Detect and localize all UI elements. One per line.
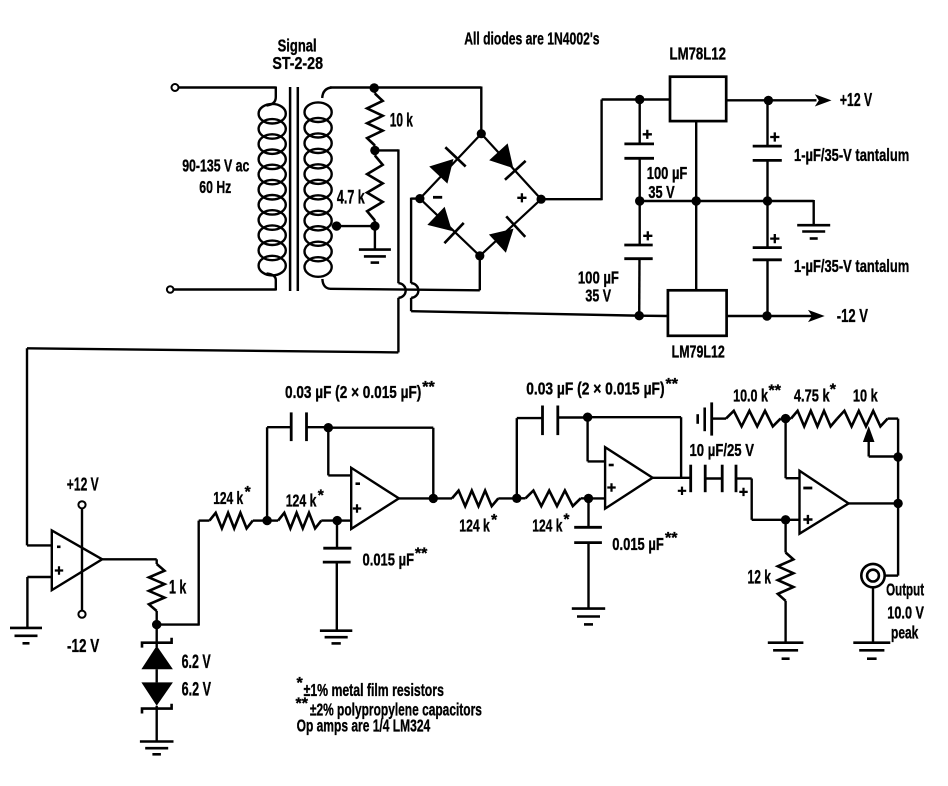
- svg-text:10 µF/25 V: 10 µF/25 V: [690, 440, 755, 460]
- label C5 '0.03 uF (2 x 0.015 uF)': [285, 382, 421, 402]
- wire signal tap to U1 inverting input: [27, 149, 406, 545]
- wire LM78L12 output to +12V: [726, 99, 816, 101]
- node junction R1/R2 tap: [370, 146, 379, 155]
- svg-text:*: *: [245, 484, 252, 501]
- svg-text:0.015 µF: 0.015 µF: [612, 534, 664, 554]
- label C5 stars: [422, 379, 435, 396]
- capacitor C9 10 uF/25 V: [691, 465, 723, 493]
- label U3 plus: [607, 483, 615, 491]
- label R1 '10 k': [390, 111, 413, 132]
- wire secondary top to bridge AC top: [330, 87, 481, 134]
- svg-text:Op amps are 1/4 LM324: Op amps are 1/4 LM324: [297, 716, 431, 736]
- svg-text:**: **: [769, 383, 782, 400]
- regulator U5 LM78L12 box: [670, 77, 726, 121]
- svg-text:0.015 µF: 0.015 µF: [363, 550, 415, 570]
- label C2 plus: [643, 231, 652, 240]
- node junction +rail / C1: [635, 95, 644, 104]
- label R9 '4.75 k': [794, 386, 830, 406]
- resistor R5 124 k: [267, 513, 337, 529]
- svg-text:10 k: 10 k: [390, 111, 413, 132]
- label C8 '0.015 uF': [612, 534, 664, 554]
- node bridge minus corner: [415, 194, 424, 203]
- label C7 stars: [666, 376, 679, 393]
- label R2 '4.7 k': [337, 188, 365, 209]
- label 'Output': [886, 580, 924, 600]
- svg-text:-12 V: -12 V: [67, 635, 100, 656]
- svg-text:124 k: 124 k: [459, 516, 490, 536]
- node -12 V terminal: [78, 611, 85, 618]
- regulator U6 LM79L12 box: [668, 290, 727, 336]
- resistor R1 10 k: [367, 88, 383, 150]
- wire R8/R9 node to U4 -IN: [786, 419, 800, 479]
- label '90-135 V ac': [182, 156, 249, 176]
- node A junction R4/R5/C5: [262, 516, 271, 525]
- op-amp U4: [800, 471, 849, 534]
- svg-text:10.0 V: 10.0 V: [887, 603, 924, 623]
- label C6 stars: [415, 546, 428, 563]
- transformer T1 core: [290, 87, 298, 291]
- wire R5 to U2 +IN: [337, 519, 351, 521]
- node junction mid-rail / C3 C4: [763, 196, 772, 205]
- label R6 '124 k': [459, 516, 490, 536]
- node junction secondary-top / R1: [370, 83, 379, 92]
- wire secondary center tap: [332, 225, 375, 227]
- svg-text:*: *: [830, 382, 837, 399]
- diode D5 zener 6.2 V: [141, 625, 173, 670]
- ground R11: [768, 643, 804, 659]
- node junction wiper / R10 end: [893, 452, 902, 461]
- label U4 plus: [803, 515, 812, 524]
- svg-text:6.2 V: 6.2 V: [182, 680, 212, 701]
- wire U1 +IN to ground: [27, 577, 51, 628]
- svg-text:10 k: 10 k: [853, 386, 878, 406]
- node junction R5 / U2 +IN / C6: [333, 516, 342, 525]
- label R6 star: [491, 512, 498, 529]
- label C3 plus: [770, 132, 779, 141]
- capacitor C11 10 uF: [698, 402, 726, 435]
- wire R2 bottom to ground: [374, 226, 376, 250]
- node junction C5 / U2 -IN / feedback: [324, 423, 333, 432]
- capacitor C4 1 uF tantalum: [753, 201, 782, 316]
- wire LM78L12 ground pin: [695, 121, 697, 201]
- wire +IN node to U4: [786, 519, 800, 521]
- node primary bottom terminal: [167, 286, 174, 293]
- node junction U4 out / feedback: [893, 499, 902, 508]
- capacitor C2 100 uF 35 V: [624, 201, 652, 316]
- svg-text:100 µF: 100 µF: [647, 163, 688, 183]
- svg-text:*: *: [491, 512, 498, 529]
- label R9 star: [830, 382, 837, 399]
- ground center-tap: [359, 250, 391, 263]
- svg-text:**: **: [665, 530, 678, 547]
- arrow -12 V output: [808, 310, 825, 322]
- label C1 '100 uF': [647, 163, 688, 183]
- node junction R7 / U3 +IN / C8: [584, 494, 593, 503]
- label '10.0 V': [887, 603, 924, 623]
- svg-text:60 Hz: 60 Hz: [199, 177, 231, 197]
- node B junction R6/R7/C7: [512, 494, 521, 503]
- diode D4 (bridge bottom-right): [488, 216, 525, 254]
- label R5 '124 k': [286, 491, 317, 511]
- label U2 minus: [356, 482, 361, 485]
- wire U1 output: [102, 559, 157, 564]
- svg-text:**: **: [296, 696, 309, 713]
- label U3 minus: [609, 464, 614, 467]
- wire C10 to U4 +IN node: [752, 479, 786, 520]
- node +12 V terminal: [78, 501, 85, 508]
- wire connector shield to ground: [872, 587, 874, 642]
- svg-text:1-µF/35-V tantalum: 1-µF/35-V tantalum: [794, 145, 909, 165]
- diode D3 (bridge bottom-left): [426, 206, 463, 244]
- svg-text:124 k: 124 k: [532, 516, 562, 536]
- capacitor C10 10 uF/25 V: [722, 465, 752, 493]
- label U1 minus: [57, 545, 61, 548]
- node center tap on winding: [332, 221, 341, 230]
- output connector J1: [861, 564, 884, 587]
- svg-text:100 µF: 100 µF: [578, 268, 619, 288]
- diode D1 (bridge top-left): [428, 147, 466, 184]
- potentiometer R10 10 k: [837, 411, 898, 504]
- svg-text:1 k: 1 k: [169, 578, 187, 599]
- label D5 '6.2 V': [182, 652, 211, 673]
- svg-text:*: *: [318, 488, 325, 505]
- wire zener node to R4: [157, 521, 210, 626]
- label D6 '6.2 V': [182, 680, 212, 701]
- resistor R6 124 k: [433, 491, 517, 507]
- label C2 '35 V': [585, 286, 611, 306]
- svg-text:35 V: 35 V: [585, 286, 611, 306]
- label U2 plus: [353, 504, 361, 512]
- label C9/C10 '10 uF/25 V': [690, 440, 755, 460]
- capacitor C1 100 uF 35 V: [624, 100, 654, 202]
- wire secondary bottom to bridge AC bottom: [330, 256, 480, 290]
- label R11 '12 k': [748, 568, 772, 589]
- capacitor C5 0.03 uF: [291, 412, 328, 441]
- ground output connector: [853, 643, 890, 659]
- resistor R8 10.0 k: [726, 411, 786, 427]
- wire node A to C5: [267, 427, 291, 521]
- node junction C7 / U3 -IN / feedback: [583, 413, 592, 422]
- svg-text:*: *: [297, 675, 304, 692]
- resistor R4 124 k: [210, 513, 268, 529]
- op-amp U2: [351, 468, 399, 529]
- resistor R2 4.7 k: [367, 150, 383, 226]
- resistor R9 4.75 k: [786, 411, 838, 427]
- ground C8: [572, 609, 605, 625]
- label U1 plus: [55, 566, 63, 574]
- node bridge AC top corner: [477, 129, 486, 138]
- node junction R8 / R9 / U4 -IN: [781, 414, 790, 423]
- label C3 '1-uF/35-V tantalum': [794, 145, 909, 165]
- capacitor C7 0.03 uF: [543, 406, 588, 436]
- wire output to connector: [885, 503, 898, 575]
- label R7 star: [564, 512, 571, 529]
- node junction -12V / C4: [762, 311, 771, 320]
- note star 1: [297, 675, 304, 692]
- label R5 star: [318, 488, 325, 505]
- wire R7 to U3 +IN: [589, 497, 606, 499]
- label bridge minus: [433, 196, 442, 199]
- label bridge plus: [517, 193, 526, 202]
- node primary top terminal: [172, 84, 179, 91]
- wire C7 node to U3 output: [588, 417, 682, 478]
- node junction U4 +IN / R11: [781, 515, 790, 524]
- resistor R7 124 k: [517, 491, 589, 507]
- svg-text:*: *: [564, 512, 571, 529]
- svg-text:35 V: 35 V: [648, 182, 675, 202]
- op-amp U3: [605, 447, 653, 508]
- label '60 Hz': [199, 177, 231, 197]
- label R8 stars: [769, 383, 782, 400]
- svg-text:6.2 V: 6.2 V: [182, 652, 211, 673]
- svg-text:+12 V: +12 V: [840, 89, 873, 110]
- label C8 stars: [665, 530, 678, 547]
- wire U2 output: [399, 497, 433, 499]
- label C2 '100 uF': [578, 268, 619, 288]
- svg-text:10.0 k: 10.0 k: [733, 386, 768, 406]
- svg-text:0.03 µF (2 × 0.015 µF): 0.03 µF (2 × 0.015 µF): [285, 382, 421, 402]
- wire primary bottom lead: [174, 288, 276, 290]
- svg-text:peak: peak: [891, 623, 918, 643]
- label 'peak': [891, 623, 918, 643]
- label C6 '0.015 uF': [363, 550, 415, 570]
- svg-text:124 k: 124 k: [213, 488, 243, 508]
- label C7 '0.03 uF (2 x 0.015 uF)': [526, 379, 664, 399]
- capacitor C8 0.015 uF: [574, 498, 602, 608]
- label 'LM78L12': [670, 44, 727, 64]
- wire C5 node to U2 output: [328, 428, 433, 499]
- svg-text:124 k: 124 k: [286, 491, 317, 511]
- resistor R3 1 k: [149, 564, 165, 625]
- svg-text:4.75 k: 4.75 k: [794, 386, 830, 406]
- svg-text:-12 V: -12 V: [837, 305, 869, 326]
- label C4 plus: [770, 234, 779, 243]
- svg-text:+12 V: +12 V: [67, 474, 99, 495]
- resistor R11 12 k: [778, 520, 794, 643]
- svg-text:**: **: [666, 376, 679, 393]
- label C9 plus: [678, 487, 686, 495]
- svg-text:Output: Output: [886, 580, 924, 600]
- label R4 '124 k': [213, 488, 243, 508]
- wire C5 node to U2 -IN: [328, 428, 351, 476]
- wire primary top lead: [179, 86, 276, 88]
- ground zener string: [140, 742, 174, 755]
- label U1 '-12 V': [67, 635, 100, 656]
- label U1 '+12 V': [67, 474, 99, 495]
- label R3 '1 k': [169, 578, 187, 599]
- wire U1 V+ pin: [81, 508, 83, 610]
- node junction R3 / zeners / R4: [152, 620, 161, 629]
- label R8 '10.0 k': [733, 386, 768, 406]
- svg-text:LM78L12: LM78L12: [670, 44, 727, 64]
- note '±2% polypropylene capacitors': [310, 700, 482, 720]
- svg-text:90-135 V ac: 90-135 V ac: [182, 156, 249, 176]
- node junction R2 bottom / center tap: [370, 221, 379, 230]
- node bridge plus corner: [537, 195, 546, 204]
- label '-12 V': [837, 305, 869, 326]
- label '+12 V': [840, 89, 873, 110]
- diode bridge frame: [420, 134, 541, 256]
- note stars 2: [296, 696, 309, 713]
- wire node B to C7: [517, 418, 543, 499]
- node junction mid-rail / regulator ground: [692, 196, 701, 205]
- ground supply common: [797, 225, 830, 238]
- svg-text:4.7 k: 4.7 k: [337, 188, 365, 209]
- transformer T1 primary winding (Signal ST-2-28): [259, 87, 286, 291]
- label C4 '1-uF/35-V tantalum': [794, 256, 909, 276]
- svg-text:1-µF/35-V tantalum: 1-µF/35-V tantalum: [794, 256, 909, 276]
- svg-text:**: **: [415, 546, 428, 563]
- svg-text:±1% metal film resistors: ±1% metal film resistors: [304, 680, 444, 700]
- diode D2 (bridge top-right): [488, 142, 526, 179]
- label T1 'ST-2-28': [272, 53, 323, 73]
- wire LM79L12 output to -12V: [727, 315, 812, 317]
- svg-text:ST-2-28: ST-2-28: [272, 53, 323, 73]
- wire LM79L12 ground pin: [695, 201, 697, 290]
- wire bridge plus to +rail: [541, 100, 670, 201]
- op-amp U1: [52, 531, 102, 591]
- svg-text:0.03 µF (2 × 0.015 µF): 0.03 µF (2 × 0.015 µF): [526, 379, 664, 399]
- ground U1 +IN: [10, 628, 42, 643]
- svg-text:**: **: [422, 379, 435, 396]
- svg-text:LM79L12: LM79L12: [672, 342, 725, 362]
- label R7 '124 k': [532, 516, 562, 536]
- diode D6 zener 6.2 V: [141, 682, 173, 741]
- wire mid ground rail: [640, 200, 814, 202]
- label U4 minus: [803, 487, 812, 490]
- label R4 star: [245, 484, 252, 501]
- wire U3 output: [653, 477, 691, 479]
- node junction U2 out / R6: [429, 494, 438, 503]
- label 'LM79L12': [672, 342, 725, 362]
- label C1 plus: [643, 130, 652, 139]
- transformer T1 secondary winding: [305, 88, 332, 289]
- capacitor C3 1 uF tantalum: [753, 100, 782, 201]
- node junction +12V / C3: [764, 96, 773, 105]
- arrow +12 V output: [815, 94, 832, 106]
- note 'Op amps are 1/4 LM324': [297, 716, 431, 736]
- note 'All diodes are 1N4002's': [464, 29, 599, 49]
- label C1 '35 V': [648, 182, 675, 202]
- capacitor C6 0.015 uF: [323, 521, 352, 631]
- node junction -rail / C2: [635, 311, 644, 320]
- note '±1% metal film resistors': [304, 680, 444, 700]
- wire mid-rail to ground: [813, 200, 815, 225]
- label T1 'Signal': [278, 36, 317, 56]
- wire bridge minus to -rail: [411, 198, 668, 316]
- label R10 '10 k': [853, 386, 878, 406]
- wire D5-D6 anodes: [155, 669, 157, 682]
- wire C7 node to U3 -IN: [588, 417, 606, 461]
- node junction mid-rail / C1: [635, 196, 644, 205]
- wire U4 output: [849, 502, 899, 504]
- svg-text:12 k: 12 k: [748, 568, 772, 589]
- label C10 plus: [739, 488, 747, 496]
- svg-text:All diodes are 1N4002's: All diodes are 1N4002's: [464, 29, 599, 49]
- ground C6: [320, 631, 352, 644]
- node bridge AC bottom corner: [475, 251, 484, 260]
- pot R10 wiper arrow: [863, 426, 898, 457]
